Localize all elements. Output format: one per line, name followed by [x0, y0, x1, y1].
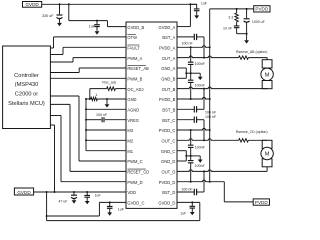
junction 1000uF: [246, 8, 248, 10]
svg-text:GVDD_A: GVDD_A: [159, 25, 176, 30]
wire GVDD to GVDD_A: [189, 4, 191, 26]
wire M2: [86, 139, 126, 141]
junction col mid C: [190, 155, 192, 157]
svg-text:100nF: 100nF: [195, 84, 206, 88]
capacitor 1uF (GVDD_A): [190, 3, 196, 5]
junction GND arrow: [106, 98, 108, 100]
svg-text:Controller: Controller: [14, 73, 39, 79]
wire BST_D: [177, 191, 194, 193]
svg-text:PVDD: PVDD: [255, 7, 268, 12]
capacitor 100nF (VREG): [102, 117, 104, 122]
svg-text:GND: GND: [127, 97, 136, 102]
svg-text:OC_ADJ: OC_ADJ: [127, 87, 143, 92]
capacitor 100nF (PVDD_B-GND): [188, 80, 194, 82]
node PVDD (top): [254, 6, 270, 12]
junction OUT_C BST: [203, 139, 205, 141]
wire GVDD_C rail: [47, 215, 100, 217]
wire PVDD_D: [177, 180, 224, 182]
capacitor 100nF (PVDD_D-GND): [188, 161, 194, 163]
svg-text:PWM_B: PWM_B: [127, 77, 142, 82]
svg-text:GND_A: GND_A: [161, 66, 175, 71]
junction PVDD_B bus: [209, 98, 211, 100]
wire PWM_D: [50, 115, 61, 117]
svg-text:M2: M2: [127, 139, 133, 144]
svg-text:OUT_D: OUT_D: [162, 170, 176, 175]
ground (GND_AB): [199, 73, 201, 77]
wire GVDD_D rail (bottom): [47, 220, 200, 222]
capacitor 330uF: [59, 4, 61, 14]
wire GVDD down-left vertical: [46, 192, 48, 221]
svg-text:1uF: 1uF: [201, 2, 207, 6]
wire GND: [86, 98, 91, 100]
junction GVDD rail / GVDD_B branch: [68, 3, 70, 5]
junction OUT_D BST: [203, 170, 205, 172]
wire GND_A: [177, 67, 186, 69]
decoupling column A/B: [190, 47, 192, 62]
junction PVDD_A bus: [209, 46, 211, 48]
node GVDD (bottom): [14, 188, 33, 195]
svg-text:PWM_A: PWM_A: [127, 56, 142, 61]
IC U1 DRV8412 body: [126, 22, 177, 208]
junction tie A: [185, 72, 187, 74]
wire PVDD_A: [177, 46, 210, 48]
junction OUT_A BST: [203, 57, 205, 59]
svg-text:GVDD: GVDD: [17, 190, 31, 195]
junction 47uF: [73, 191, 75, 193]
junction AGND bus: [85, 108, 87, 110]
wire GND_D: [177, 160, 186, 162]
svg-text:AGND: AGND: [127, 108, 139, 113]
resistor Roc_adj: [107, 87, 116, 91]
svg-text:GND_C: GND_C: [161, 149, 175, 154]
wire VREG: [86, 119, 101, 121]
wire PWM_B: [50, 77, 126, 79]
capacitor 1000uF: [246, 9, 248, 19]
node GVDD (top): [23, 2, 42, 8]
junction PVDD_D bus: [209, 181, 211, 183]
wire GND_B: [177, 77, 186, 79]
svg-text:1: 1: [95, 93, 97, 97]
resistor Rsense_CD: [239, 139, 249, 142]
svg-text:PVDD: PVDD: [255, 200, 268, 205]
svg-text:PWM_D: PWM_D: [127, 180, 142, 185]
svg-text:1uF: 1uF: [89, 25, 95, 29]
controller U2 box: [3, 46, 51, 129]
svg-text:GVDD_D: GVDD_D: [158, 201, 175, 206]
wire RESET_AB: [50, 72, 79, 74]
svg-text:100 nF: 100 nF: [96, 113, 108, 117]
capacitor 10nF: [236, 22, 238, 26]
ground (1uF GVDD_D): [191, 211, 193, 213]
svg-text:100nF: 100nF: [195, 164, 206, 168]
ground (330uF): [59, 22, 61, 23]
junction PVDD_A col: [190, 46, 192, 48]
wire FAULT: [50, 54, 63, 56]
motor M1 (A/B): [262, 60, 272, 68]
junction PVDD_B col: [190, 98, 192, 100]
svg-text:100 nF: 100 nF: [181, 187, 193, 191]
svg-text:GVDD_B: GVDD_B: [127, 25, 144, 30]
svg-text:M: M: [265, 152, 270, 158]
svg-text:OUT_B: OUT_B: [162, 87, 176, 92]
svg-text:100 nF: 100 nF: [205, 115, 217, 119]
ground (1uF GVDD_C): [109, 211, 111, 213]
svg-text:BST_A: BST_A: [162, 35, 175, 40]
svg-text:1uF: 1uF: [180, 211, 186, 215]
junction PVDD_D col: [190, 181, 192, 183]
capacitor 1uF (VDD): [86, 192, 88, 195]
svg-text:OUT_A: OUT_A: [162, 56, 176, 61]
junction 1uF GVDD_B: [96, 20, 98, 22]
ground (GND pin): [106, 99, 108, 104]
junction GND bus: [85, 98, 87, 100]
svg-text:PVDD_C: PVDD_C: [159, 128, 176, 133]
wire PVDD_B: [177, 97, 210, 99]
junction 1uF VDD: [86, 191, 88, 193]
svg-text:GVDD_C: GVDD_C: [127, 201, 144, 206]
PVDD bus: [209, 9, 211, 182]
svg-text:RESET_AB: RESET_AB: [127, 66, 149, 71]
junction GVDD rail / C 330uF: [59, 3, 61, 5]
svg-text:FAULT: FAULT: [127, 46, 140, 51]
wire GND_C-GND_D tie: [185, 151, 187, 161]
capacitor 1uF (GVDD_B): [96, 21, 98, 25]
capacitor 1uF (GVDD_C): [109, 202, 111, 206]
svg-text:GND_B: GND_B: [161, 77, 175, 82]
wire PWM_A: [50, 61, 73, 63]
svg-text:BST_D: BST_D: [162, 190, 175, 195]
svg-text:Stellaris MCU): Stellaris MCU): [8, 101, 45, 107]
junction Roc_adj / GND: [89, 98, 91, 100]
capacitor 100nF (BST_A): [194, 34, 196, 40]
svg-text:100nF: 100nF: [195, 62, 206, 66]
svg-text:BST_B: BST_B: [162, 108, 175, 113]
svg-text:OTW: OTW: [127, 35, 137, 40]
junction PVDD_C bus: [209, 129, 211, 131]
node PVDD (bottom): [253, 199, 269, 205]
svg-text:PVDD_D: PVDD_D: [159, 180, 176, 185]
svg-text:47 uF: 47 uF: [59, 200, 68, 204]
ground (PVDD filter): [246, 34, 248, 41]
svg-text:M: M: [265, 72, 270, 78]
junction GVDD_C rail: [46, 215, 48, 217]
resistor Rsense_AB: [239, 56, 249, 59]
ground (1uF GVDD_B): [96, 30, 98, 31]
capacitor 47uF: [73, 192, 75, 195]
svg-text:VREG: VREG: [127, 118, 139, 123]
junction GVDD rail / GVDD_A branch: [189, 3, 191, 5]
junction VREG bus: [85, 119, 87, 121]
wire GND_C: [177, 150, 186, 152]
svg-text:C2000 or: C2000 or: [15, 92, 39, 98]
svg-text:1000 uF: 1000 uF: [252, 20, 265, 24]
svg-text:VDD: VDD: [127, 190, 136, 195]
wire M3: [86, 129, 126, 131]
junction snubber gnd: [246, 33, 248, 35]
junction tie C: [185, 155, 187, 157]
wire BST_C: [177, 119, 194, 121]
capacitor 100nF (BST_C): [194, 117, 196, 123]
svg-text:100nF: 100nF: [195, 145, 206, 149]
wire OUT_A: [177, 56, 239, 58]
wire AGND: [86, 108, 126, 110]
wire BST_A: [177, 36, 194, 38]
svg-text:PVDD_B: PVDD_B: [159, 97, 176, 102]
svg-text:PVDD_A: PVDD_A: [159, 46, 176, 51]
svg-text:GND_D: GND_D: [161, 159, 175, 164]
capacitor 100nF (PVDD_C-GND): [188, 145, 194, 147]
junction 1uF GVDD_D: [191, 201, 193, 203]
junction snubber: [236, 8, 238, 10]
wire PVDD rail: [210, 8, 254, 10]
wire OUT_C: [177, 139, 239, 141]
svg-text:10 nF: 10 nF: [223, 27, 232, 31]
ground (GND_CD): [199, 156, 201, 160]
wire OUT_D: [177, 170, 267, 172]
resistor 3.3: [236, 9, 238, 13]
svg-text:100 nF: 100 nF: [182, 42, 194, 46]
wire GVDD top rail: [42, 3, 197, 5]
wire GVDD to GVDD_B: [68, 4, 70, 20]
svg-text:BST_C: BST_C: [162, 118, 175, 123]
svg-text:Rsense_CD (option): Rsense_CD (option): [236, 130, 268, 134]
ground (1uF VDD): [86, 200, 88, 202]
wire GND_A-GND_B tie: [185, 68, 187, 78]
left ground bus: [85, 99, 87, 151]
junction M3 bus: [85, 129, 87, 131]
svg-text:GVDD: GVDD: [25, 2, 39, 7]
resistor 1 ohm: [91, 97, 98, 100]
capacitor 1uF (GVDD_D): [191, 202, 193, 206]
svg-text:(MSP430: (MSP430: [15, 82, 39, 88]
wire OUT_B: [177, 87, 267, 89]
wire OC_ADJ: [89, 89, 91, 99]
svg-text:1uF: 1uF: [95, 194, 101, 198]
svg-text:330 uF: 330 uF: [42, 14, 54, 18]
wire PWM_C: [50, 95, 79, 97]
svg-text:PWM_C: PWM_C: [127, 159, 142, 164]
svg-text:1uF: 1uF: [118, 208, 124, 212]
junction VDD stub: [54, 191, 56, 193]
junction GVDD down: [46, 191, 48, 193]
wire BST_B: [177, 108, 194, 110]
wire VDD rail: [34, 191, 126, 193]
wire OTW: [50, 47, 53, 49]
svg-text:Roc_adj: Roc_adj: [102, 81, 115, 85]
capacitor 100nF (BST_B): [194, 106, 196, 112]
decoupling column C/D: [190, 130, 192, 145]
junction 1uF GVDD_C: [109, 201, 111, 203]
svg-text:M1: M1: [127, 149, 133, 154]
capacitor 100nF (BST_D): [194, 189, 196, 195]
motor M2 (C/D): [262, 140, 272, 148]
junction col mid A: [190, 72, 192, 74]
svg-text:Rsense_AB (option): Rsense_AB (option): [236, 50, 267, 54]
junction M2 bus: [85, 139, 87, 141]
wire controller to VDD: [50, 124, 54, 126]
svg-text:M3: M3: [127, 128, 133, 133]
wire RESET_CD: [50, 103, 70, 105]
svg-text:OUT_C: OUT_C: [162, 139, 176, 144]
junction PVDD_C col: [190, 129, 192, 131]
capacitor 100nF (PVDD_A-GND): [188, 62, 194, 64]
ground (47uF): [73, 199, 75, 201]
junction OUT_B BST: [203, 88, 205, 90]
ground (1uF GVDD_A): [196, 14, 198, 17]
svg-text:100 nF: 100 nF: [205, 110, 217, 114]
wire PVDD_C: [177, 128, 210, 130]
svg-text:3.3: 3.3: [228, 16, 233, 20]
svg-text:RESET_CD: RESET_CD: [127, 170, 149, 175]
